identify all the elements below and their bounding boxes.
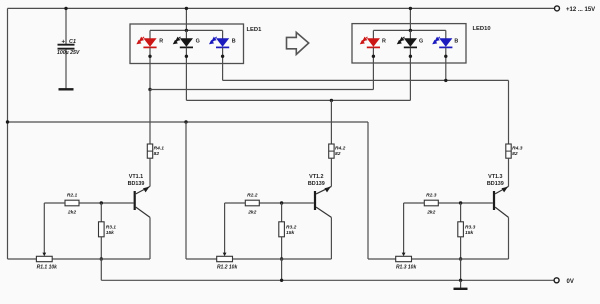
- wire top +12V rail: [8, 7, 555, 9]
- resistor R2.1: [65, 200, 79, 206]
- LED LED10-G cathode lead: [409, 48, 411, 64]
- transistor VT1.2 lower lead: [316, 207, 331, 217]
- LED LED10-G triangle: [404, 38, 417, 47]
- potentiometer R1.3: [396, 256, 412, 261]
- LED LED10-G cathode bar: [404, 46, 417, 48]
- node bus stage2 junction: [184, 120, 187, 123]
- node net R junction: [148, 88, 151, 91]
- LED LED1-B anode lead: [222, 30, 224, 38]
- svg-text:R2.2: R2.2: [247, 193, 258, 199]
- wire wiper vertical stage 1: [43, 203, 45, 253]
- wire R2.2 to wiper corner: [225, 202, 246, 204]
- svg-text:G: G: [196, 39, 200, 45]
- resistor R4.3: [506, 144, 511, 158]
- wire pot R1.1 right lead: [52, 258, 150, 260]
- svg-text:B: B: [232, 39, 236, 45]
- wire pot R1.2 left lead: [186, 258, 217, 260]
- wire base VT1.3: [438, 202, 493, 204]
- wire LED1-B drop: [222, 63, 224, 80]
- symbol big arrow: [287, 32, 309, 54]
- LED LED1-R anode lead: [149, 30, 151, 38]
- wire R3.2 bottom lead: [281, 237, 283, 259]
- wiper arrow R1.3: [402, 253, 406, 257]
- wire R4.2 to collector: [330, 158, 332, 186]
- wire stage 3 to ground rail: [460, 259, 462, 280]
- transistor VT1.1 upper lead with arrow: [136, 186, 150, 194]
- node net B junction: [444, 79, 447, 82]
- svg-text:15k: 15k: [286, 230, 294, 236]
- node net G junction: [330, 99, 333, 102]
- svg-text:R3.2: R3.2: [286, 224, 297, 230]
- wire net R to R4.1: [149, 90, 151, 145]
- node emitter junction stage 2: [280, 257, 283, 260]
- transistor VT1.3 upper lead with arrow: [495, 186, 508, 194]
- svg-text:R1.1 10k: R1.1 10k: [37, 264, 58, 270]
- LED LED10-R triangle: [367, 38, 380, 47]
- capacitor C1 plates: [58, 44, 75, 46]
- resistor R4.1: [147, 144, 152, 158]
- wire base VT1.1: [79, 202, 134, 204]
- LED LED10-R anode lead: [372, 30, 374, 38]
- transistor VT1.1 lower lead: [136, 207, 150, 217]
- wire R2.3 to wiper corner: [404, 202, 425, 204]
- wire pot R1.2 right lead: [233, 258, 332, 260]
- LED LED10-B triangle: [439, 38, 452, 47]
- wire +12V bus horizontal: [8, 121, 369, 123]
- svg-text:R3.3: R3.3: [465, 224, 476, 230]
- wire LED1 anode to rail: [185, 8, 187, 30]
- svg-text:R3.1: R3.1: [106, 224, 117, 230]
- wire LED1-G drop: [185, 63, 187, 100]
- node bus left junction: [6, 120, 9, 123]
- LED LED10-B emission arrows: [433, 37, 440, 44]
- svg-text:R1.3 10k: R1.3 10k: [396, 264, 417, 270]
- resistor R3.3: [458, 222, 464, 237]
- svg-text:R: R: [382, 39, 386, 45]
- svg-text:2k2: 2k2: [426, 210, 435, 216]
- svg-text:R4.2: R4.2: [335, 145, 346, 151]
- wiper arrow R1.1: [42, 253, 46, 257]
- wire R4.3 to collector: [508, 158, 510, 186]
- LED LED1-G triangle: [180, 38, 193, 47]
- LED LED1-B cathode bar: [216, 46, 229, 48]
- node LED1 anode rail junction: [185, 7, 188, 10]
- LED LED1-B pin dot: [221, 55, 224, 58]
- LED LED1-R cathode bar: [143, 46, 156, 48]
- svg-text:C1: C1: [69, 39, 76, 45]
- wire net G horizontal: [186, 99, 410, 101]
- ground symbol: [454, 288, 468, 290]
- svg-text:R: R: [159, 39, 163, 45]
- svg-text:R4.3: R4.3: [512, 145, 523, 151]
- wire base VT1.2: [259, 202, 314, 204]
- LED LED1-R pin dot: [148, 55, 151, 58]
- wire LED10-R drop: [372, 63, 374, 90]
- wire R3.3 bottom lead: [460, 237, 462, 259]
- resistor R4.2: [329, 144, 334, 158]
- wire C1 top lead: [65, 8, 67, 44]
- node base junction stage 1: [100, 201, 103, 204]
- node LED1 internal junction: [185, 29, 188, 32]
- node emitter junction stage 3: [459, 257, 462, 260]
- resistor R2.3: [424, 200, 438, 206]
- LED LED1-G anode lead: [185, 30, 187, 38]
- wire pot R1.3 right lead: [412, 258, 509, 260]
- svg-text:100µ 25V: 100µ 25V: [57, 50, 80, 56]
- wire wiper vertical stage 3: [403, 203, 405, 253]
- wire LED10 anode to rail: [409, 8, 411, 30]
- LED LED10-G anode lead: [409, 30, 411, 38]
- wire C1 bottom lead: [65, 50, 67, 89]
- wire net G to R4.2: [330, 100, 332, 144]
- transistor VT1.1 BD139 bar: [134, 191, 136, 210]
- svg-text:0V: 0V: [567, 279, 574, 285]
- wire wiper vertical stage 2: [224, 203, 226, 253]
- svg-text:2k2: 2k2: [247, 210, 256, 216]
- wire R4.1 to collector: [149, 158, 151, 186]
- LED LED1-G cathode bar: [180, 46, 193, 48]
- resistor R3.1: [99, 222, 105, 237]
- svg-text:R1.2 10k: R1.2 10k: [217, 264, 238, 270]
- wire net B to R4.3: [508, 80, 510, 144]
- LED LED10-R cathode bar: [367, 46, 380, 48]
- svg-text:BD139: BD139: [308, 181, 325, 187]
- terminal 0V: [554, 278, 559, 283]
- LED LED10-B cathode lead: [445, 48, 447, 64]
- wire left vertical feed: [7, 8, 9, 259]
- wire net B horizontal: [223, 79, 509, 81]
- svg-text:B: B: [454, 39, 458, 45]
- wire LED1-R drop: [149, 63, 151, 89]
- wire R2.1 to wiper corner: [44, 202, 65, 204]
- node base junction stage 3: [459, 201, 462, 204]
- wire LED10-B drop: [445, 63, 447, 80]
- LED LED1-G cathode lead: [185, 48, 187, 64]
- LED LED10-R cathode lead: [372, 48, 374, 64]
- node C1 top rail junction: [64, 7, 67, 10]
- svg-text:R2.3: R2.3: [426, 193, 437, 199]
- node rail stage3 junction: [459, 279, 462, 282]
- wire R3.3 top lead: [460, 203, 462, 222]
- node emitter junction stage 1: [100, 257, 103, 260]
- wire pot R1.1 left lead: [8, 258, 37, 260]
- svg-text:82: 82: [154, 151, 160, 157]
- wire pot R1.3 left lead: [368, 258, 396, 260]
- LED LED1-G pin dot: [185, 55, 188, 58]
- wire ground lead: [460, 280, 462, 288]
- svg-text:LED1: LED1: [247, 27, 263, 33]
- transistor VT1.2 BD139 bar: [314, 191, 316, 210]
- potentiometer R1.1: [36, 256, 52, 261]
- svg-text:BD139: BD139: [128, 181, 145, 187]
- wire stage 3 left vertical: [367, 122, 369, 259]
- svg-text:LED10: LED10: [473, 26, 491, 32]
- wire VT1.1 emitter down: [149, 217, 151, 259]
- svg-text:2k2: 2k2: [67, 210, 76, 216]
- LED LED10-B cathode bar: [439, 46, 452, 48]
- wire stage 2 left vertical: [185, 122, 187, 259]
- wire VT1.2 emitter down: [330, 217, 332, 259]
- terminal +12V: [555, 6, 560, 11]
- node LED10 internal junction: [409, 29, 412, 32]
- svg-text:VT1.1: VT1.1: [129, 174, 143, 180]
- transistor VT1.3 BD139 bar: [493, 191, 495, 210]
- wire LED10 internal anode bus: [373, 29, 445, 31]
- svg-text:G: G: [419, 39, 423, 45]
- LED LED1-R triangle: [143, 38, 156, 47]
- svg-text:82: 82: [512, 151, 518, 157]
- LED module LED10 box: [352, 24, 466, 63]
- node base junction stage 2: [280, 201, 283, 204]
- svg-text:15k: 15k: [465, 230, 473, 236]
- LED LED10-B pin dot: [444, 55, 447, 58]
- LED LED10-G emission arrows: [398, 37, 405, 44]
- svg-text:+: +: [62, 39, 66, 45]
- svg-text:82: 82: [335, 151, 341, 157]
- LED LED1-B triangle: [216, 38, 229, 47]
- transistor VT1.2 upper lead with arrow: [316, 186, 331, 194]
- svg-text:BD139: BD139: [487, 181, 504, 187]
- wire LED1 internal anode bus: [150, 29, 223, 31]
- wire R3.1 top lead: [100, 203, 102, 222]
- LED LED10-B anode lead: [445, 30, 447, 38]
- wire stage 1 to ground rail: [100, 259, 102, 280]
- svg-text:R2.1: R2.1: [67, 193, 78, 199]
- ground C1 bar: [59, 88, 74, 90]
- LED LED10-R emission arrows: [361, 37, 368, 44]
- LED LED1-R emission arrows: [137, 37, 144, 44]
- LED LED1-G emission arrows: [174, 37, 181, 44]
- svg-text:+12 ... 15V: +12 ... 15V: [566, 7, 595, 13]
- wire LED10-G drop: [409, 63, 411, 100]
- LED LED10-G pin dot: [409, 55, 412, 58]
- node rail stage2 junction: [280, 279, 283, 282]
- wire 0V rail: [101, 279, 554, 281]
- LED LED1-R cathode lead: [149, 48, 151, 64]
- svg-text:15k: 15k: [106, 230, 114, 236]
- wire stage 2 to ground rail: [281, 259, 283, 280]
- LED module LED1 box: [130, 24, 244, 64]
- svg-text:R4.1: R4.1: [154, 145, 165, 151]
- node LED10 anode rail junction: [409, 7, 412, 10]
- LED LED1-B emission arrows: [210, 37, 217, 44]
- resistor R3.2: [279, 222, 285, 237]
- wire VT1.3 emitter down: [508, 217, 510, 259]
- potentiometer R1.2: [217, 256, 233, 261]
- LED LED1-B cathode lead: [222, 48, 224, 64]
- wire net R horizontal: [150, 89, 373, 91]
- LED LED10-R pin dot: [372, 55, 375, 58]
- svg-text:VT1.3: VT1.3: [488, 174, 502, 180]
- resistor R2.2: [245, 200, 259, 206]
- wire R3.2 top lead: [281, 203, 283, 222]
- wire R3.1 bottom lead: [100, 237, 102, 259]
- transistor VT1.3 lower lead: [495, 207, 508, 217]
- svg-text:VT1.2: VT1.2: [309, 174, 323, 180]
- wiper arrow R1.2: [223, 253, 227, 257]
